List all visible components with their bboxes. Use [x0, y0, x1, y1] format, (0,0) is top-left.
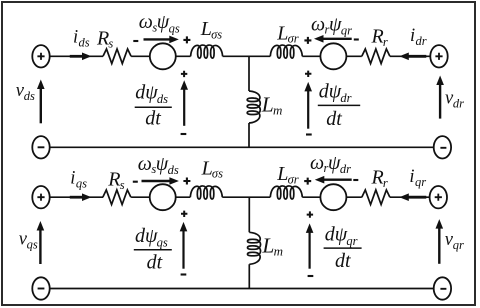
inductor L_sigma-r (d-axis) — [270, 45, 302, 58]
inductor L_sigma-s (d-axis) — [191, 45, 223, 58]
inductor L_sigma-s (q-axis) — [190, 186, 222, 199]
resistor R_s (d-axis) — [103, 49, 131, 64]
plus sign left of source (d-axis rotor) — [304, 37, 311, 44]
resistor R_r (d-axis) — [362, 49, 390, 64]
terminal + (v_ds top-left) — [32, 45, 49, 67]
label fraction dpsi_qr/dt — [324, 223, 362, 272]
arrow over source omega_s psi_qs — [144, 36, 179, 44]
voltage arrow v_qr — [436, 219, 444, 264]
source omega_r psi_dr (q-axis, circle) — [320, 184, 346, 210]
source omega_r psi_qr (d-axis, circle) — [320, 43, 346, 69]
arrow over source omega_s psi_ds — [142, 177, 179, 185]
minus sign right of source (q-axis rotor) — [353, 179, 358, 181]
terminal + (v_dr top-right) — [430, 45, 447, 67]
current arrow i_qs — [70, 193, 92, 201]
label fraction dpsi_dr/dt — [318, 81, 360, 130]
current arrow i_dr — [399, 53, 426, 61]
terminal - (v_qr bottom-right) — [434, 277, 451, 299]
voltage arrow v_dr — [436, 76, 444, 119]
source omega_s psi_qs (d-axis, circle) — [150, 43, 176, 69]
minus sign left of source (q-axis stator) — [133, 181, 138, 183]
plus sign left of source (q-axis rotor) — [304, 178, 311, 185]
voltage arrow v_ds — [37, 80, 45, 124]
svg-text:dt: dt — [335, 250, 351, 272]
label fraction dpsi_ds/dt — [135, 82, 172, 130]
inductor L_m (d-axis magnetizing) — [247, 91, 260, 123]
minus sign right of source (d-axis rotor) — [354, 38, 359, 40]
flux arrow dpsi_ds/dt — [180, 71, 188, 134]
flux arrow dpsi_qs/dt — [180, 211, 188, 275]
flux arrow dpsi_dr/dt — [304, 71, 312, 135]
voltage arrow v_qs — [37, 221, 45, 264]
current arrow i_qr — [399, 193, 426, 201]
minus sign left of source (d-axis stator) — [133, 40, 138, 42]
source omega_s psi_ds (q-axis, circle) — [150, 184, 176, 210]
terminal + (v_qr top-right) — [430, 186, 447, 208]
wire: top rail of d-axis circuit — [50, 55, 431, 57]
current arrow i_ds — [70, 53, 92, 61]
terminal - (v_ds bottom-left) — [32, 136, 49, 158]
plus sign right of source (q-axis stator) — [183, 178, 190, 185]
wire: magnetizing branch q-axis — [248, 197, 250, 288]
terminal - (v_dr bottom-right) — [434, 136, 451, 158]
wire: magnetizing branch d-axis — [248, 56, 250, 147]
svg-text:dt: dt — [147, 251, 163, 273]
arrow over source omega_r psi_qr — [314, 35, 352, 43]
wire: top rail of q-axis circuit — [50, 196, 430, 198]
resistor R_r (q-axis) — [362, 190, 390, 205]
svg-text:dt: dt — [145, 108, 161, 130]
inductor L_sigma-r (q-axis) — [270, 186, 302, 199]
resistor R_s (q-axis) — [103, 190, 131, 205]
flux arrow dpsi_qr/dt — [306, 211, 314, 276]
inductor L_m (q-axis magnetizing) — [248, 232, 261, 264]
arrow over source omega_r psi_dr — [315, 176, 352, 184]
terminal - (v_qs bottom-left) — [32, 277, 49, 299]
label fraction dpsi_qs/dt — [134, 225, 172, 274]
svg-text:dt: dt — [326, 108, 342, 130]
plus sign right of source (d-axis stator) — [183, 36, 190, 43]
terminal + (v_qs top-left) — [32, 186, 49, 208]
wire: bottom rail of d-axis circuit — [50, 146, 434, 148]
wire: bottom rail of q-axis circuit — [50, 288, 434, 290]
